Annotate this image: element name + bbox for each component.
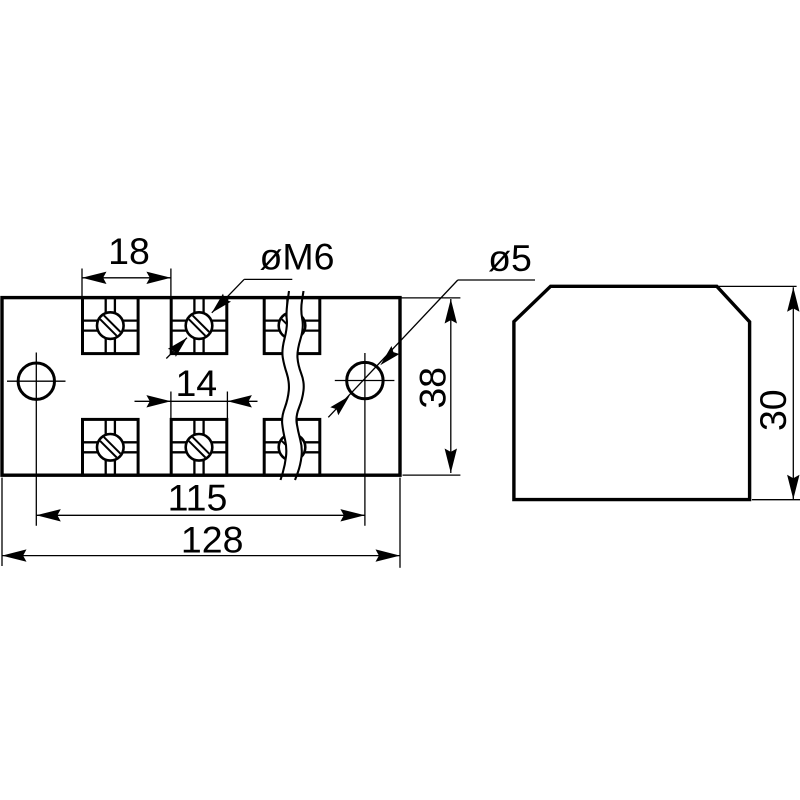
- svg-text:115: 115: [168, 477, 228, 519]
- svg-text:128: 128: [181, 518, 244, 560]
- svg-text:30: 30: [752, 389, 794, 431]
- svg-text:38: 38: [411, 367, 453, 409]
- svg-text:18: 18: [108, 230, 150, 272]
- svg-text:ø5: ø5: [488, 237, 532, 279]
- svg-text:14: 14: [175, 362, 217, 404]
- svg-text:øM6: øM6: [260, 235, 335, 277]
